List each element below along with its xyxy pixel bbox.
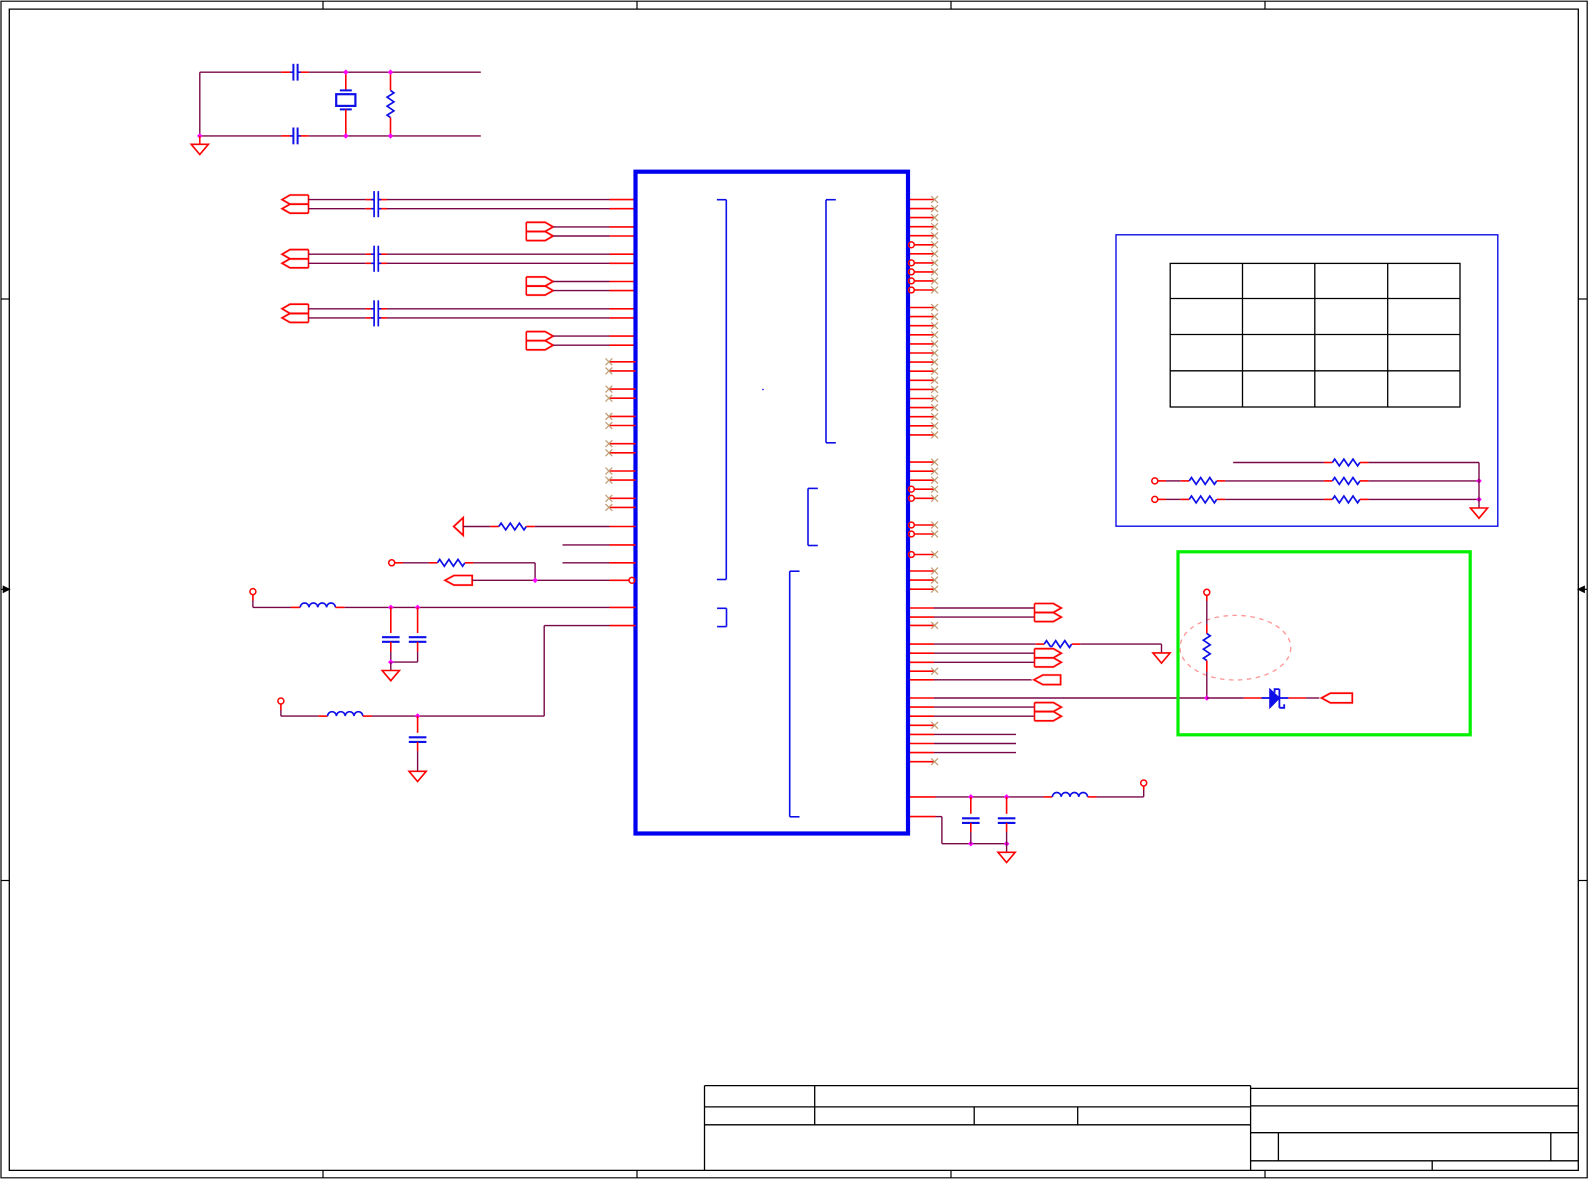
inductor L2	[328, 712, 363, 716]
IC U1 right pins group A (NC)	[909, 196, 939, 293]
junction	[388, 659, 394, 665]
capacitor C10	[409, 607, 427, 662]
bus bracket	[808, 488, 818, 545]
wire	[281, 704, 328, 716]
wire	[391, 661, 418, 663]
IC U1 left no-connect pins	[606, 358, 636, 510]
junction	[1476, 478, 1482, 484]
wire	[563, 544, 636, 546]
port P11	[1322, 693, 1353, 703]
connector J6	[526, 332, 553, 350]
wire	[363, 626, 636, 717]
resistor R4	[1044, 641, 1072, 648]
ground	[409, 771, 426, 781]
wire	[553, 235, 635, 237]
IC U1 right pin (NC)	[910, 622, 938, 629]
wire	[910, 607, 1035, 609]
port P9	[1152, 496, 1158, 502]
wire	[910, 661, 1035, 663]
wire	[1360, 480, 1479, 482]
wire	[553, 290, 635, 292]
bus bracket	[717, 608, 726, 626]
inverted pin bubble	[629, 577, 635, 583]
wire	[910, 616, 1035, 618]
wire	[335, 606, 635, 608]
connector J9	[1035, 703, 1062, 721]
table	[1170, 263, 1460, 407]
bus bracket	[826, 200, 836, 443]
wire	[309, 262, 636, 264]
connector J1	[282, 195, 308, 213]
wire	[910, 817, 1007, 844]
wire	[465, 563, 535, 581]
wire	[910, 796, 1052, 798]
ground	[191, 136, 208, 155]
connector J3	[282, 304, 308, 322]
wire	[553, 335, 635, 337]
connector J7	[1035, 604, 1062, 622]
wire	[1207, 697, 1244, 699]
resistor R5	[1332, 459, 1360, 466]
IC U1	[636, 172, 909, 834]
inductor L3	[1052, 793, 1087, 797]
capacitor C1	[290, 64, 300, 81]
diode D1	[1244, 689, 1306, 708]
wire	[526, 526, 635, 528]
border center arrow left	[1, 586, 10, 592]
port P2	[389, 560, 395, 566]
wire	[553, 344, 635, 346]
inductor L1	[300, 603, 335, 607]
wire	[1217, 498, 1333, 500]
wire	[910, 652, 1035, 654]
connector J8	[1035, 649, 1062, 667]
capacitor C13	[998, 797, 1016, 844]
wire	[1360, 462, 1479, 464]
junction	[1476, 497, 1482, 503]
wire	[309, 317, 636, 319]
capacitor C11	[409, 716, 427, 771]
bus bracket	[790, 571, 800, 817]
crystal Y1	[336, 73, 355, 135]
resistor R7	[1332, 478, 1360, 485]
wire	[200, 71, 481, 73]
wire	[1072, 644, 1162, 653]
capacitor C9	[382, 607, 400, 662]
junction	[388, 605, 420, 611]
wire	[309, 308, 636, 310]
junction	[968, 794, 1009, 800]
port P10	[1204, 589, 1210, 595]
capacitor C12	[962, 797, 980, 844]
port P8	[1152, 478, 1158, 484]
junction	[415, 713, 421, 719]
capacitor C5	[371, 246, 381, 272]
IC U1 right pins group B (NC)	[910, 304, 938, 438]
ground	[1153, 653, 1170, 663]
port P6	[1034, 675, 1061, 685]
info box	[1116, 235, 1498, 526]
wire	[910, 643, 1044, 645]
mark	[762, 389, 764, 391]
connector J2	[282, 250, 308, 268]
bus bracket	[717, 200, 726, 580]
resistor R8	[1189, 496, 1217, 503]
highlight box	[1178, 552, 1470, 735]
IC U1 right pins group D (NC)	[909, 522, 939, 593]
wire	[463, 526, 499, 528]
port P7	[1141, 780, 1147, 786]
wire	[1217, 480, 1333, 482]
port P1	[454, 518, 464, 536]
wire	[1360, 498, 1479, 500]
port P3	[445, 576, 472, 586]
wire stubs	[910, 734, 1016, 752]
wire	[553, 281, 635, 283]
resistor R9	[1332, 496, 1360, 503]
wire	[910, 679, 1034, 681]
wire	[910, 715, 1035, 717]
IC U1 right pins group C (NC)	[909, 459, 939, 502]
wire	[553, 226, 635, 228]
resistor R2	[499, 523, 527, 530]
capacitor C2	[290, 128, 300, 145]
wire	[395, 562, 438, 564]
IC U1 right pin (NC)	[910, 758, 938, 765]
wire	[1306, 697, 1322, 699]
wire	[253, 595, 300, 608]
annotation ellipse	[1180, 615, 1291, 680]
wire	[910, 697, 1207, 699]
junction	[532, 578, 538, 584]
junction	[968, 841, 1009, 847]
wire	[309, 199, 636, 201]
capacitor C7	[371, 300, 381, 326]
wire	[199, 72, 201, 136]
resistor R1	[387, 73, 394, 135]
ground	[998, 844, 1015, 863]
wire	[563, 562, 636, 564]
ground	[382, 662, 399, 681]
resistor R6	[1189, 478, 1217, 485]
wire	[1478, 463, 1480, 509]
port P5	[278, 698, 284, 704]
wire	[1158, 498, 1189, 500]
title block left section	[705, 1086, 1251, 1171]
wire	[309, 253, 636, 255]
wire	[1206, 595, 1208, 633]
resistor R10	[1203, 634, 1210, 661]
junction	[1204, 695, 1210, 701]
connector J5	[526, 277, 553, 295]
wire	[1158, 480, 1189, 482]
wire	[1206, 661, 1208, 699]
IC U1 right pin (NC)	[910, 668, 938, 675]
wire	[472, 579, 629, 581]
wire	[910, 706, 1035, 708]
wire	[1088, 786, 1144, 797]
ground	[1470, 508, 1487, 518]
border center arrow right	[1578, 586, 1587, 592]
capacitor C3	[371, 191, 381, 217]
title block right section	[1251, 1088, 1579, 1170]
resistor R3	[437, 559, 465, 566]
wire	[1233, 462, 1332, 464]
connector J4	[526, 222, 553, 240]
wire	[309, 208, 636, 210]
junction	[197, 69, 393, 138]
wire	[200, 135, 481, 137]
IC U1 right pin (NC)	[910, 722, 938, 729]
port P4	[250, 589, 256, 595]
